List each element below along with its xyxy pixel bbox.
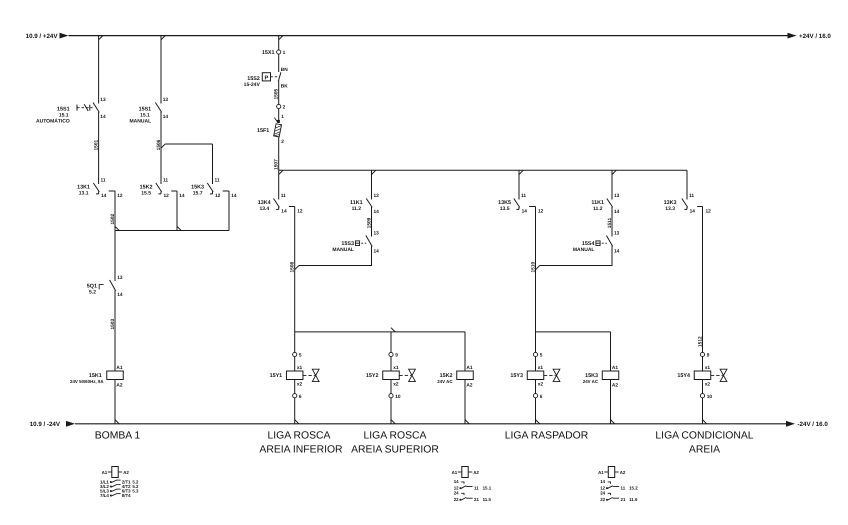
- svg-text:13: 13: [374, 230, 380, 236]
- solenoid coil 15Y1: [286, 371, 303, 380]
- svg-text:1511: 1511: [607, 217, 613, 228]
- terminal 15X1 pin 1: [277, 50, 281, 54]
- relay contact 15K3 15.7: [207, 183, 213, 192]
- svg-text:2: 2: [281, 139, 284, 145]
- svg-text:9: 9: [707, 353, 710, 359]
- svg-text:A2: A2: [620, 470, 626, 475]
- svg-text:11: 11: [689, 193, 694, 199]
- svg-text:10.9 / -24V: 10.9 / -24V: [30, 421, 61, 428]
- svg-text:12: 12: [538, 209, 544, 215]
- svg-text:LIGA CONDICIONAL: LIGA CONDICIONAL: [655, 431, 753, 442]
- pin 12 13K4 bracket: [289, 206, 295, 208]
- junction 1510 node: [536, 266, 540, 270]
- svg-text:MANUAL: MANUAL: [573, 247, 595, 253]
- wire terminal to x1 15Y3: [535, 357, 537, 371]
- svg-text:11.2: 11.2: [593, 206, 603, 212]
- svg-text:13.4: 13.4: [259, 206, 269, 212]
- relay coil 15K3 24V AC: [602, 371, 619, 380]
- svg-text:14: 14: [100, 114, 106, 120]
- svg-text:13: 13: [374, 193, 380, 199]
- svg-text:A1: A1: [612, 365, 618, 371]
- wire tie2 to terminal 9 15Y2: [390, 332, 392, 353]
- relay contact 13K4 13.4: [274, 199, 280, 208]
- wire 1511: [611, 207, 613, 237]
- wire 15Y2 to bottom bus: [390, 398, 392, 424]
- svg-text:1508: 1508: [290, 261, 296, 272]
- junction bottom bus 15K3: [611, 420, 615, 424]
- wire 15X1:1 to 15S2: [278, 54, 280, 72]
- wire 1501: [98, 112, 100, 184]
- pin 12 13K3 bracket: [697, 206, 702, 208]
- wire 1510: [535, 207, 537, 332]
- svg-text:7/L4: 7/L4: [100, 493, 109, 498]
- junction bottom bus col 15K1: [115, 420, 119, 424]
- svg-text:11.6: 11.6: [629, 497, 638, 502]
- svg-text:x2: x2: [393, 381, 399, 387]
- svg-text:LIGA ROSCA: LIGA ROSCA: [268, 431, 331, 442]
- junction top bus col 15S1-manual: [161, 36, 165, 40]
- svg-text:22: 22: [454, 497, 459, 502]
- svg-text:24V 50/60Hz, 9A: 24V 50/60Hz, 9A: [70, 379, 104, 384]
- svg-text:24: 24: [454, 491, 459, 496]
- svg-text:A1: A1: [466, 365, 472, 371]
- wire tie2b corner down to 15K3: [610, 332, 612, 371]
- svg-text:11: 11: [101, 178, 106, 184]
- junction top bus col 15X1: [279, 36, 283, 40]
- wire 15Y1 to terminal 5: [294, 332, 296, 353]
- pushbutton 15S3 MANUAL: [366, 236, 372, 247]
- svg-text:11: 11: [281, 193, 286, 199]
- svg-text:15.1: 15.1: [483, 485, 492, 490]
- relay coil 15K2 24V AC: [457, 371, 474, 380]
- wire terminal to x1 15Y4: [702, 357, 704, 371]
- junction bottom bus 15Y1: [295, 420, 299, 424]
- junction tie2 at 15Y2: [391, 328, 395, 332]
- wire 1502: [114, 191, 116, 231]
- pin 12 13K1 bracket: [109, 190, 115, 192]
- relay contact 11K1 11.2 (second): [607, 199, 613, 208]
- svg-text:5.3: 5.3: [132, 488, 139, 493]
- terminal 9 15Y2: [389, 352, 393, 356]
- svg-text:A1: A1: [598, 470, 604, 475]
- svg-text:13: 13: [614, 193, 620, 199]
- svg-text:14: 14: [522, 208, 528, 214]
- svg-text:15-24V: 15-24V: [244, 82, 261, 88]
- wire tie collecting 13K1/15K2/15K3: [115, 230, 229, 232]
- svg-text:15Y2: 15Y2: [366, 373, 379, 379]
- wire x2 to terminal 6 15Y3: [535, 380, 537, 394]
- junction bottom bus 15Y4: [703, 420, 707, 424]
- svg-text:12: 12: [706, 209, 712, 215]
- svg-text:A2: A2: [473, 470, 479, 475]
- svg-text:x2: x2: [538, 381, 544, 387]
- wire 1512: [702, 207, 704, 353]
- svg-text:1501: 1501: [94, 139, 100, 150]
- svg-text:BN: BN: [281, 67, 288, 73]
- svg-text:11: 11: [215, 178, 220, 184]
- wire tie1 to 5Q1: [114, 231, 116, 282]
- contact mirror 15K1 coil symbol: [112, 467, 118, 478]
- svg-text:A1: A1: [102, 470, 108, 475]
- svg-text:1502: 1502: [110, 213, 116, 224]
- svg-text:+24V / 16.0: +24V / 16.0: [799, 33, 831, 40]
- svg-text:MANUAL: MANUAL: [130, 119, 152, 125]
- relay contact 13K3 13.3: [682, 199, 688, 208]
- wire tie 15Y3/15K3: [536, 331, 611, 333]
- wire 1505: [278, 81, 280, 105]
- relay contact 13K5 13.5: [514, 199, 520, 208]
- svg-text:A1: A1: [452, 470, 458, 475]
- wire 15X1:2 to 15F1: [278, 109, 280, 120]
- svg-text:1: 1: [281, 114, 284, 120]
- svg-text:11: 11: [163, 178, 168, 184]
- wire tie2 corner down to 15K2: [464, 332, 466, 371]
- svg-text:12: 12: [215, 193, 221, 199]
- svg-text:14: 14: [614, 209, 620, 215]
- svg-text:24: 24: [600, 491, 605, 496]
- wire -24V bottom bus: [75, 423, 787, 425]
- wire 1509: [371, 207, 373, 237]
- svg-text:21: 21: [621, 497, 626, 502]
- selector switch 15S1 MANUAL: [155, 103, 161, 113]
- pushbutton 15S4 MANUAL: [606, 236, 612, 247]
- svg-text:1507: 1507: [274, 159, 280, 170]
- svg-text:-24V / 16.0: -24V / 16.0: [798, 421, 829, 428]
- contact mirror 15K3 coil symbol: [608, 467, 614, 478]
- svg-text:1505: 1505: [274, 88, 280, 99]
- svg-text:13: 13: [100, 97, 106, 103]
- svg-text:11.5: 11.5: [483, 497, 492, 502]
- pin 14 15K2 bracket: [171, 190, 177, 192]
- svg-text:5: 5: [540, 353, 543, 359]
- wire 15K2 to bottom bus: [464, 380, 466, 424]
- junction tie1 at col 177: [177, 226, 181, 230]
- svg-text:15Y4: 15Y4: [677, 373, 690, 379]
- wire 15Y3 to terminal 5: [535, 332, 537, 353]
- node R+ arrow +24V/16.0: [788, 33, 797, 39]
- pin 14 13K1 stub: [98, 192, 100, 194]
- svg-text:10: 10: [707, 394, 713, 400]
- valve symbol 15Y3: [544, 374, 556, 376]
- wire col1 top-bus to 15S1-auto pin13: [98, 36, 100, 104]
- terminal 6 15Y1: [293, 394, 297, 398]
- wire 15K3 branch down to tie: [228, 191, 230, 231]
- svg-text:1506: 1506: [156, 139, 162, 150]
- pin 12 13K5 bracket: [529, 206, 535, 208]
- junction feeder at 11K1-2: [612, 170, 616, 174]
- svg-text:14: 14: [374, 209, 380, 215]
- pin 12 15K2 stub: [160, 192, 162, 194]
- svg-text:15.2: 15.2: [629, 485, 638, 490]
- wire x2 to terminal 10 15Y2: [390, 380, 392, 394]
- junction feeder at center column: [279, 170, 283, 174]
- limit contact 5Q1 5.2: [110, 280, 116, 291]
- junction bottom bus 15Y3: [536, 420, 540, 424]
- svg-text:x1: x1: [705, 365, 711, 371]
- svg-text:14: 14: [117, 292, 123, 298]
- svg-text:15Y1: 15Y1: [270, 373, 283, 379]
- wire 15S4 down and left to node 1510: [540, 246, 612, 266]
- terminal 10 15Y2: [389, 394, 393, 398]
- svg-text:AUTOMÁTICO: AUTOMÁTICO: [36, 118, 70, 125]
- junction feeder at 11K1-1: [372, 170, 376, 174]
- svg-text:1509: 1509: [366, 217, 372, 228]
- svg-text:15Y3: 15Y3: [510, 373, 523, 379]
- svg-text:11: 11: [621, 485, 626, 490]
- svg-text:x1: x1: [393, 365, 399, 371]
- svg-text:6: 6: [540, 394, 543, 400]
- svg-text:x1: x1: [538, 365, 544, 371]
- relay coil 15K1 24V 50/60Hz 9A: [107, 371, 124, 380]
- solenoid coil 15Y4: [694, 371, 711, 380]
- svg-text:11.2: 11.2: [352, 206, 362, 212]
- svg-text:BOMBA 1: BOMBA 1: [95, 431, 141, 442]
- wire terminal to x1 15Y2: [390, 357, 392, 371]
- svg-text:15X1: 15X1: [262, 50, 275, 56]
- junction 1506 branch to 15K3: [161, 144, 165, 148]
- svg-text:x2: x2: [297, 381, 303, 387]
- wire feeder rail: [279, 169, 687, 171]
- junction 1508 node: [295, 266, 299, 270]
- svg-text:13.5: 13.5: [500, 206, 510, 212]
- wire 1507: [278, 137, 280, 170]
- wire col2 top-bus to 15S1-manual: [160, 36, 162, 104]
- svg-text:1503: 1503: [110, 318, 116, 329]
- svg-text:9: 9: [395, 353, 398, 359]
- wire branch to 15K3 contact: [165, 143, 212, 145]
- solenoid coil 15Y3: [527, 371, 544, 380]
- wire x2 to terminal 6 15Y1: [294, 380, 296, 394]
- breaker 15F1: [274, 118, 277, 122]
- terminal 15X1 pin 2: [277, 104, 281, 108]
- svg-text:6: 6: [299, 394, 302, 400]
- wire 15K2 branch down: [176, 191, 178, 231]
- svg-text:LIGA RASPADOR: LIGA RASPADOR: [505, 431, 589, 442]
- terminal 6 15Y3: [533, 394, 537, 398]
- svg-text:10.9 / +24V: 10.9 / +24V: [26, 33, 59, 40]
- wire 1506: [160, 112, 162, 184]
- svg-text:AREIA: AREIA: [689, 445, 720, 456]
- svg-text:BK: BK: [281, 84, 288, 90]
- pin 12 15K3 stub: [212, 192, 214, 194]
- svg-text:13: 13: [117, 275, 123, 281]
- svg-text:13.1: 13.1: [79, 191, 89, 197]
- svg-text:14: 14: [690, 208, 696, 214]
- solenoid coil 15Y2: [383, 371, 400, 380]
- pin 14 13K5 stub: [518, 207, 520, 209]
- svg-text:2: 2: [283, 105, 286, 111]
- valve symbol 15Y1: [303, 374, 315, 376]
- svg-text:AREIA SUPERIOR: AREIA SUPERIOR: [351, 445, 439, 456]
- svg-text:AREIA INFERIOR: AREIA INFERIOR: [259, 445, 343, 456]
- svg-text:15.7: 15.7: [193, 191, 203, 197]
- pin 14 15K3 bracket: [223, 190, 229, 192]
- svg-text:P: P: [265, 76, 269, 82]
- svg-text:24V AC: 24V AC: [583, 379, 599, 384]
- svg-text:5: 5: [299, 353, 302, 359]
- relay contact 15K2 15.5: [156, 183, 162, 192]
- svg-text:21: 21: [474, 497, 479, 502]
- relay contact 13K1 13.1: [93, 183, 99, 192]
- wire top bus to terminal 15X1:1: [278, 36, 280, 50]
- svg-text:MANUAL: MANUAL: [332, 247, 354, 253]
- svg-text:14: 14: [374, 248, 380, 254]
- selector switch 15S1 AUTOMATICO: [93, 103, 99, 113]
- pin 14 13K4 stub: [278, 207, 280, 209]
- svg-text:1510: 1510: [530, 261, 536, 272]
- wire feeder to 13K5: [518, 170, 520, 199]
- svg-text:10: 10: [395, 394, 401, 400]
- wire 1508: [294, 207, 296, 332]
- wire terminal to x1 15Y1: [294, 357, 296, 371]
- svg-text:1: 1: [283, 50, 286, 56]
- svg-text:12: 12: [117, 193, 123, 199]
- svg-text:15.5: 15.5: [141, 191, 151, 197]
- junction tie1 at col 115: [115, 226, 119, 230]
- svg-text:8/T4: 8/T4: [122, 493, 131, 498]
- svg-text:x1: x1: [297, 365, 303, 371]
- wire 15S3 down and left to node 1508: [299, 246, 372, 266]
- svg-text:13: 13: [163, 97, 169, 103]
- node R- arrow -24V/16.0: [786, 421, 795, 427]
- svg-text:14: 14: [179, 193, 185, 199]
- svg-text:11: 11: [521, 193, 526, 199]
- svg-text:14: 14: [600, 479, 605, 484]
- svg-text:A2: A2: [466, 383, 472, 389]
- svg-text:A2: A2: [123, 470, 129, 475]
- svg-text:14: 14: [281, 208, 287, 214]
- wire feeder corner down to 13K3: [686, 170, 688, 199]
- wire 15Y4 to bottom bus: [702, 398, 704, 424]
- svg-text:14: 14: [614, 248, 620, 254]
- svg-text:12: 12: [164, 193, 170, 199]
- svg-text:5.2: 5.2: [89, 290, 96, 296]
- wire 1503: [114, 291, 116, 372]
- wire 15Y3 to bottom bus: [535, 398, 537, 424]
- pin 14 13K3 stub: [686, 207, 688, 209]
- junction bottom bus 15K2: [465, 420, 469, 424]
- svg-text:12: 12: [297, 209, 303, 215]
- terminal 10 15Y4: [700, 394, 704, 398]
- svg-text:22: 22: [600, 497, 605, 502]
- svg-text:A2: A2: [116, 383, 122, 389]
- terminal 9 15Y4: [700, 352, 704, 356]
- wire center column to 13K4: [278, 170, 280, 199]
- svg-text:LIGA ROSCA: LIGA ROSCA: [364, 431, 427, 442]
- terminal 5 15Y1: [293, 352, 297, 356]
- wire feeder to 11K1-1: [371, 170, 373, 199]
- wire x2 to terminal 10 15Y4: [702, 380, 704, 394]
- wire 15K3 to bottom bus: [610, 380, 612, 424]
- svg-text:14: 14: [454, 479, 459, 484]
- svg-text:13: 13: [614, 230, 620, 236]
- junction feeder at 13K5: [519, 170, 523, 174]
- svg-text:A2: A2: [612, 383, 618, 389]
- svg-text:14: 14: [163, 114, 169, 120]
- svg-text:14: 14: [101, 193, 107, 199]
- valve symbol 15Y4: [711, 374, 723, 376]
- wire +24V top bus: [69, 35, 789, 37]
- svg-text:13.3: 13.3: [665, 206, 675, 212]
- pressure switch 15S2 15-24V: [278, 72, 281, 81]
- terminal 5 15Y3: [533, 352, 537, 356]
- svg-text:24V AC: 24V AC: [437, 379, 453, 384]
- svg-text:11: 11: [474, 485, 479, 490]
- valve symbol 15Y2: [399, 374, 411, 376]
- svg-text:15F1: 15F1: [257, 128, 269, 134]
- svg-text:14: 14: [231, 193, 237, 199]
- wire feeder to 11K1-2: [611, 170, 613, 199]
- svg-text:A1: A1: [116, 365, 122, 371]
- wire tie 15Y1/15Y2/15K2: [295, 331, 465, 333]
- svg-text:1512: 1512: [697, 336, 703, 347]
- junction top bus col 15S1-auto: [99, 36, 103, 40]
- junction bottom bus 15Y2: [391, 420, 395, 424]
- wire 15Y1 to bottom bus: [294, 398, 296, 424]
- wire 15K1 to bottom bus: [114, 380, 116, 424]
- relay contact 11K1 11.2 (first): [366, 199, 372, 208]
- svg-text:x2: x2: [705, 381, 711, 387]
- contact mirror 15K2 coil symbol: [462, 467, 468, 478]
